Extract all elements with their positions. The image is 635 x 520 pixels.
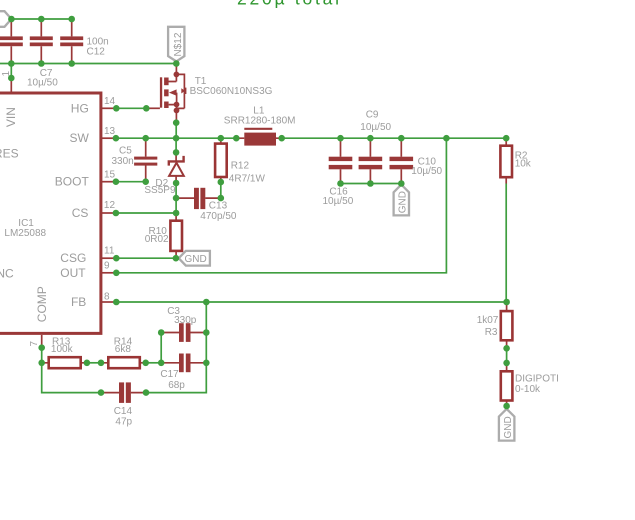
svg-text:RES: RES (0, 147, 19, 161)
svg-text:11: 11 (104, 245, 115, 256)
wire C14 right to FB vertical (146, 302, 206, 393)
svg-text:C12: C12 (87, 47, 106, 58)
wire cap bank bottom rail (341, 183, 402, 185)
capacitor C5 330n (112, 138, 158, 182)
pin CS (12) (72, 200, 116, 220)
svg-text:CS: CS (72, 206, 89, 220)
svg-text:SW: SW (69, 131, 89, 145)
ground flag GND (CSG) (179, 251, 210, 266)
svg-text:9: 9 (104, 261, 110, 272)
svg-text:0R02: 0R02 (145, 234, 169, 245)
svg-text:330p: 330p (174, 315, 197, 326)
wire SW rail left (116, 137, 236, 139)
net label N$12 (168, 27, 184, 62)
svg-text:HG: HG (71, 101, 89, 115)
pin VIN (pin 1, top) (1, 71, 18, 128)
svg-text:CSG: CSG (60, 251, 86, 265)
svg-text:OUT: OUT (60, 266, 86, 280)
svg-text:10µ/50: 10µ/50 (27, 77, 58, 88)
svg-text:13: 13 (104, 126, 116, 137)
capacitor C17 68p (160, 354, 206, 392)
pin HG (14) (71, 96, 116, 115)
junctions BOOT net (113, 178, 149, 185)
svg-text:10µ/50: 10µ/50 (323, 196, 354, 207)
svg-text:NC: NC (0, 267, 14, 281)
resistor R12 4R7/1W (215, 138, 265, 184)
svg-text:C14: C14 (114, 406, 133, 417)
capacitor C16 10µ/50 (323, 138, 383, 207)
svg-text:68p: 68p (168, 380, 185, 391)
svg-text:COMP: COMP (35, 286, 49, 322)
resistor R10 0R02 (145, 213, 182, 258)
svg-text:C17: C17 (160, 369, 179, 380)
svg-text:15: 15 (104, 169, 116, 180)
transistor T1 BSC060N10NS3G (146, 64, 272, 123)
svg-text:FB: FB (71, 295, 86, 309)
junctions FB net (203, 299, 510, 366)
capacitor (leftmost, cut) (0, 19, 23, 64)
junctions CS CSG OUT FB pin ends (113, 210, 120, 306)
pin SW (13) (69, 126, 116, 145)
svg-text:14: 14 (104, 96, 116, 107)
svg-text:100k: 100k (51, 344, 74, 355)
pin COMP (pin 7, bottom) (29, 286, 49, 348)
svg-text:220µ total: 220µ total (237, 0, 342, 9)
capacitor C14 47p (101, 382, 146, 427)
svg-text:47p: 47p (115, 416, 132, 427)
svg-text:R3: R3 (485, 327, 498, 338)
capacitor C10 10µ/50 (390, 138, 443, 183)
pin CSG (11) (60, 245, 116, 265)
wire FB row (116, 301, 506, 303)
svg-text:8: 8 (104, 292, 110, 303)
wire SW to diode (175, 138, 177, 152)
resistor DIGIPOTI 0-10k (501, 363, 559, 406)
svg-text:470p/50: 470p/50 (200, 211, 237, 222)
wire input rail to N$12 (0, 63, 176, 65)
svg-text:R12: R12 (231, 161, 250, 172)
junctions diode / CS / C13 column (173, 149, 225, 261)
wire CS row (116, 212, 176, 214)
svg-text:12: 12 (104, 200, 116, 211)
ground flag GND (cap bank) (394, 185, 409, 216)
wire C3 branch vertical (160, 333, 162, 363)
wire R13 to R14 (87, 362, 101, 364)
op-amp IC1 LM25088 body (0, 92, 102, 335)
wire HG to gate (116, 107, 146, 109)
resistor R2 10k (500, 138, 531, 183)
svg-text:SS5P9: SS5P9 (144, 185, 176, 196)
capacitor C13 470p/50 (176, 188, 237, 222)
svg-text:4R7/1W: 4R7/1W (229, 173, 266, 184)
inductor L1 SRR1280-180M (224, 106, 296, 146)
svg-text:10k: 10k (515, 159, 532, 170)
pin FB (8) (71, 292, 116, 309)
wire top rail (11, 18, 71, 20)
svg-text:VIN: VIN (4, 107, 18, 127)
svg-text:10µ/50: 10µ/50 (411, 166, 442, 177)
capacitor C12 value 100n (60, 19, 109, 64)
junctions cap bank bottom (337, 180, 404, 187)
svg-text:BOOT: BOOT (55, 175, 90, 189)
svg-text:GND: GND (398, 191, 409, 213)
svg-text:BSC060N10NS3G: BSC060N10NS3G (190, 86, 273, 97)
svg-text:LM25088: LM25088 (4, 228, 46, 239)
svg-text:330n: 330n (112, 156, 134, 167)
pin OUT (9) (60, 261, 116, 280)
diode D2 SS5P9 (144, 152, 183, 196)
capacitor C3 330p (161, 306, 206, 342)
wire R12 to C13 (220, 182, 222, 198)
svg-text:0-10k: 0-10k (515, 384, 541, 395)
junctions COMP network (38, 329, 164, 396)
resistor R14 6k8 (101, 336, 146, 368)
junctions HG net (113, 105, 150, 112)
wire R2 down to FB node (505, 184, 507, 303)
wire SW rail right (282, 137, 506, 139)
wire R3 to digipoti (506, 348, 508, 363)
junctions SW rail (113, 119, 510, 141)
wire diode to CS node (175, 183, 177, 213)
wire CSG row (116, 257, 176, 259)
wire source to SW (175, 123, 177, 139)
resistor R3 1k07 (477, 302, 513, 348)
svg-text:N$12: N$12 (173, 32, 184, 56)
svg-text:6k8: 6k8 (115, 344, 132, 355)
wire R14 to C17 node (146, 362, 162, 364)
junctions input rail (8, 60, 180, 81)
junctions R3 digipoti column (503, 345, 510, 409)
svg-text:DIGIPOTI: DIGIPOTI (515, 374, 559, 385)
svg-text:SRR1280-180M: SRR1280-180M (224, 116, 296, 127)
svg-text:C9: C9 (366, 109, 379, 120)
svg-text:C5: C5 (119, 146, 132, 157)
capacitor C7 (27, 19, 58, 88)
resistor R13 100k (42, 336, 87, 368)
wire OUT row and up (116, 138, 446, 273)
wire BOOT (116, 181, 146, 183)
capacitor C9 10µ/50 (329, 109, 392, 183)
wire COMP branch down and bottom rail (42, 348, 101, 393)
svg-text:GND: GND (503, 416, 514, 438)
svg-text:10µ/50: 10µ/50 (360, 122, 391, 133)
junctions top rail (8, 16, 75, 23)
svg-text:7: 7 (29, 341, 40, 347)
svg-text:1k07: 1k07 (477, 315, 499, 326)
svg-text:GND: GND (185, 254, 207, 265)
pin BOOT (15) (55, 169, 116, 188)
ground flag GND (digipoti) (499, 409, 515, 441)
net flag (octagonal, cut off at left edge) (0, 11, 11, 27)
wire VIN drop (10, 64, 12, 79)
